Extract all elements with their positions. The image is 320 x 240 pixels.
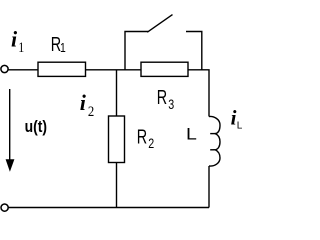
resistor R1 (38, 62, 86, 76)
svg-text:i: i (231, 105, 237, 129)
wire: junction down to R2 (116, 70, 118, 116)
wire: switch branch left riser (125, 32, 148, 70)
svg-text:1: 1 (60, 41, 66, 55)
svg-text:L: L (237, 121, 243, 132)
svg-text:R: R (157, 86, 167, 109)
wire bottom rail (8, 207, 209, 209)
svg-text:R: R (137, 125, 147, 148)
resistor R3 (141, 62, 188, 76)
svg-text:1: 1 (18, 39, 24, 56)
terminal node top-left (1, 65, 8, 72)
wire R2 to bottom (116, 163, 118, 208)
arrow u(t) head (6, 159, 15, 172)
wire R1 to R3 (86, 69, 142, 71)
wire R3 to inductor branch (188, 70, 209, 117)
switch blade (open) (147, 15, 172, 33)
inductor L coil (209, 116, 220, 166)
svg-text:2: 2 (88, 104, 94, 120)
switch right contact stub (186, 32, 202, 70)
svg-text:i: i (80, 90, 87, 115)
svg-text:3: 3 (168, 97, 174, 113)
wire inductor to bottom (208, 166, 210, 208)
resistor R2 (109, 116, 125, 163)
svg-text:2: 2 (148, 136, 154, 152)
svg-text:L: L (186, 124, 197, 143)
arrow u(t) shaft (9, 89, 11, 161)
inductor cusp tick 1 (210, 133, 215, 135)
svg-text:u(t): u(t) (25, 118, 47, 137)
terminal node bottom-left (1, 204, 8, 211)
svg-text:i: i (11, 27, 18, 52)
wire top: terminal to R1 (8, 69, 38, 71)
inductor cusp tick 2 (210, 149, 215, 151)
